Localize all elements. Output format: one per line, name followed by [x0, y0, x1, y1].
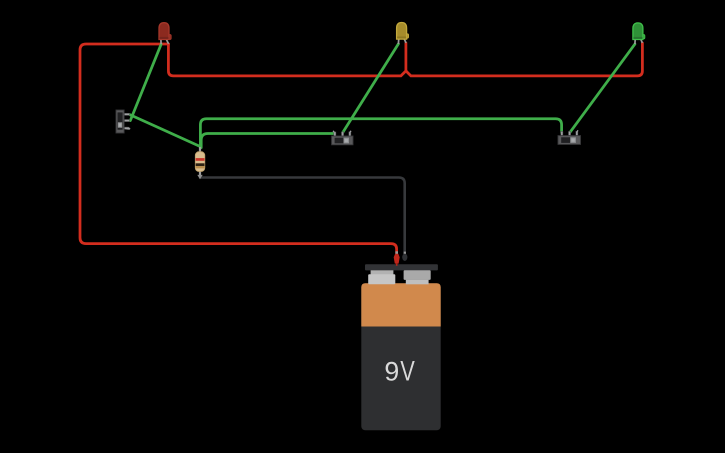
S1 body: [116, 110, 124, 133]
slide switch S2: [332, 131, 353, 145]
S3 pin 2: [569, 131, 571, 135]
S1 pin 3: [124, 127, 130, 130]
wire: resistor R1 bottom to battery - terminal (black): [200, 178, 405, 254]
battery BT1 (9V): [361, 264, 440, 430]
wire: red-bus junction to LED3 anode (red): [406, 43, 643, 76]
wire: LED1 anode to red-bus junction (red): [168, 44, 406, 76]
S2 pin 2: [342, 132, 344, 136]
wire: switch S1 pin 1 to resistor R1 top (green): [130, 115, 200, 147]
wire: LED3 cathode to switch S3 pin 2 (green): [570, 44, 635, 133]
wire: LED2 anode drop to red-bus junction (red): [405, 43, 408, 71]
black battery clip: [402, 252, 407, 261]
S2 body: [332, 136, 353, 145]
S3 body: [558, 136, 581, 145]
junction: red bus node at LED2 drop: [405, 70, 408, 73]
S2 pin 1: [334, 132, 336, 136]
slide switch S3: [558, 130, 581, 144]
S3 pin 3: [576, 131, 578, 135]
LED D2 (yellow): [397, 23, 409, 44]
battery value label 9V: [386, 361, 415, 381]
wire: battery + terminal to LED1 anode (red): [80, 44, 397, 253]
S1 pin 1: [124, 113, 129, 115]
wire: resistor R1 top to switch S3 pin 1 (green): [200, 119, 561, 148]
wire: LED1 cathode to switch S1 pin 2 (green): [130, 44, 161, 120]
wire: LED2 cathode to switch S2 pin 2 (green): [343, 44, 399, 133]
LED D3 (green): [633, 23, 645, 44]
wire: resistor R1 top to switch S2 pin 1 (green): [201, 134, 335, 148]
resistor R1: [195, 147, 205, 179]
red battery clip: [394, 251, 400, 266]
S1 pin 2: [124, 120, 129, 122]
LED D1 (red): [159, 23, 171, 45]
S2 pin 3: [349, 132, 351, 136]
slide switch S1: [116, 110, 130, 133]
S3 pin 1: [561, 131, 563, 135]
